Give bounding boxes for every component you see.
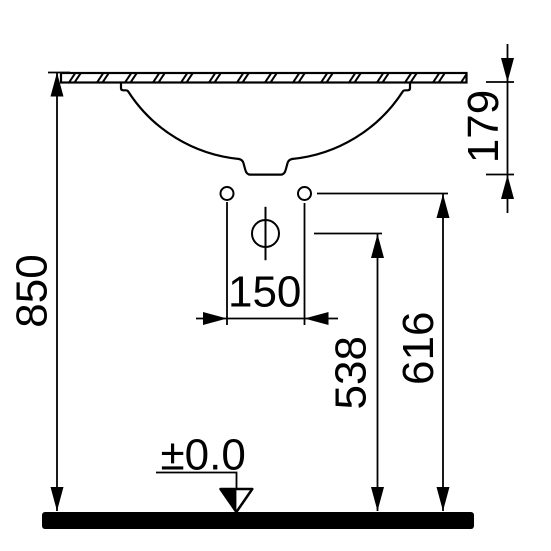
- dimension 850: [48, 73, 70, 512]
- right fixing hole: [298, 187, 311, 200]
- dimension 850 arrow up: [51, 73, 64, 97]
- dimension 616 arrow up: [437, 194, 450, 218]
- datum leader line: [156, 473, 237, 490]
- svg-text:538: 538: [327, 336, 376, 409]
- dimension 179: [486, 44, 514, 213]
- dimension 850 arrow down: [51, 487, 64, 511]
- datum triangle filled half: [221, 489, 237, 512]
- svg-text:850: 850: [8, 254, 57, 327]
- tap hole circle: [252, 220, 279, 247]
- svg-text:179: 179: [459, 90, 508, 163]
- svg-text:150: 150: [228, 268, 301, 317]
- countertop slab: [61, 73, 467, 83]
- floor bar: [42, 512, 474, 529]
- svg-text:616: 616: [394, 312, 443, 385]
- dimension 179 arrow up: [501, 175, 514, 199]
- dimension 150 extension lines: [196, 202, 338, 325]
- datum triangle: [221, 489, 253, 512]
- dimension 538 arrow down: [371, 487, 384, 511]
- tap hole centreline: [265, 207, 267, 260]
- dimension 538 extension: [314, 234, 382, 512]
- dimension 179 arrow down: [501, 58, 514, 82]
- left fixing hole: [221, 187, 234, 200]
- dimension 150 arrow right: [203, 312, 227, 325]
- dimension 150 arrow left: [305, 312, 329, 325]
- dimension 616 extension: [317, 194, 448, 512]
- dimension 538 arrow up: [371, 234, 384, 258]
- dimension 616 arrow down: [437, 487, 450, 511]
- basin bowl profile: [121, 83, 410, 175]
- countertop hatching: [68, 72, 474, 84]
